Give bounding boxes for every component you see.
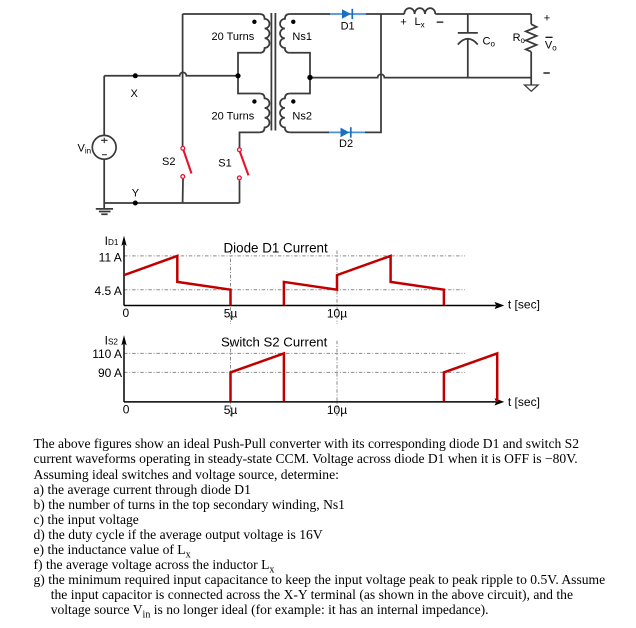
label S1	[218, 158, 231, 170]
wire Lx to output corner	[435, 13, 531, 15]
plot1 x-axis label t sec	[508, 298, 540, 312]
label output plus	[544, 13, 550, 25]
svg-text:10µ: 10µ	[327, 307, 347, 321]
wire S1 bottom contact to Y rail	[239, 180, 241, 203]
secondary center tap junction dot	[307, 75, 312, 80]
plot1 tick label 5u	[224, 307, 238, 321]
svg-text:Diode D1 Current: Diode D1 Current	[224, 241, 328, 256]
plot1 tick label 11A	[99, 250, 122, 264]
svg-text:IS2: IS2	[105, 333, 119, 347]
diode D2	[329, 127, 365, 137]
plot2 y-axis with arrow	[121, 335, 126, 402]
switch S1	[238, 148, 249, 180]
transformer primary winding P2 (20 Turns bottom)	[260, 94, 270, 133]
svg-text:X: X	[131, 88, 139, 100]
node Y dot	[133, 201, 138, 206]
svg-text:D1: D1	[341, 21, 355, 33]
ground symbol at Vin (3 bars)	[96, 203, 113, 214]
polarity dot P2	[252, 99, 256, 103]
plot2 tick label 10u	[327, 403, 347, 417]
switch S2	[181, 146, 192, 178]
wire Ns2 bottom to D2	[290, 131, 329, 133]
svg-text:Co: Co	[483, 35, 496, 48]
capacitor Co top plate	[458, 32, 478, 34]
wire D2 cathode up to D1 node	[365, 14, 381, 132]
svg-text:90 A: 90 A	[98, 366, 122, 380]
svg-text:4.5 A: 4.5 A	[95, 284, 122, 298]
svg-text:20 Turns: 20 Turns	[212, 110, 255, 122]
label node Y	[132, 187, 140, 199]
polarity dot Ns1	[291, 20, 295, 24]
plot2 x-axis with arrow	[124, 398, 504, 405]
transformer secondary winding Ns2	[280, 94, 290, 133]
plot1 title	[224, 241, 328, 256]
wire Ro bottom to output rail	[530, 52, 532, 78]
plot1 gridline 11A	[124, 255, 465, 257]
diode D1	[330, 9, 366, 19]
plot2 title	[221, 334, 328, 349]
wire Ns1 top to D1	[290, 13, 330, 15]
Vin plus minus marks	[101, 138, 107, 155]
svg-text:20 Turns: 20 Turns	[212, 31, 255, 43]
label + Lx -	[400, 16, 443, 29]
plot2 gridline 110A	[124, 352, 465, 354]
inductor Lx humps	[404, 8, 435, 14]
label output Vo with bar	[545, 37, 557, 52]
plot1 tick label 0	[122, 306, 129, 320]
label D1	[341, 21, 355, 33]
svg-text:5µ: 5µ	[224, 403, 238, 417]
label Ro	[513, 32, 526, 45]
svg-text:+: +	[400, 17, 406, 29]
plot2 gridline 90A	[124, 371, 465, 373]
wire D1 cathode to node at top	[366, 13, 381, 15]
svg-text:110 A: 110 A	[92, 347, 122, 361]
primary center tap junction dot	[235, 73, 240, 78]
svg-text:Vin: Vin	[78, 143, 92, 156]
plot2 tick label 0	[123, 403, 130, 417]
wire X rail with hop over S2 wire	[104, 72, 238, 75]
label output minus	[543, 72, 549, 74]
svg-text:Lx: Lx	[415, 16, 425, 29]
svg-text:+: +	[544, 13, 550, 25]
polarity dot P1	[252, 20, 256, 24]
label Ns1	[292, 31, 312, 43]
plot2 gridline 5u vertical	[230, 341, 232, 416]
wire Vin bottom to Y rail	[103, 159, 105, 203]
plot1 gridline 4.5A	[124, 289, 465, 291]
plot1 y-axis label ID1	[105, 234, 119, 248]
label node X	[131, 88, 139, 100]
wire top rail output to Lx	[381, 13, 405, 15]
plot2 tick label 90A	[98, 366, 122, 380]
plot1 waveform diode D1 current trace	[124, 256, 444, 305]
label D2	[339, 138, 353, 150]
voltage source Vin circle	[92, 135, 116, 159]
plot2 tick label 110A	[92, 347, 122, 361]
wire capacitor bottom	[467, 39, 469, 78]
wire S2 branch from top rail	[182, 14, 184, 146]
wire capacitor branch top	[467, 14, 469, 33]
svg-text:0: 0	[122, 306, 129, 320]
wire Vin top to X rail	[103, 76, 105, 136]
plot1 y-axis with arrow	[121, 236, 126, 306]
resistor Ro zigzag	[526, 24, 537, 52]
transformer core	[271, 13, 275, 131]
svg-text:ID1: ID1	[105, 234, 119, 248]
plot2 x-axis label t sec	[508, 395, 540, 409]
node X dot	[133, 73, 138, 78]
plot2 waveform switch S2 current trace	[231, 353, 498, 401]
plot1 gridline 5u vertical	[230, 251, 232, 325]
wire Ns1 bottom to secondary center tap	[290, 53, 310, 78]
svg-text:Ns1: Ns1	[292, 31, 312, 43]
svg-text:Switch S2 Current: Switch S2 Current	[221, 334, 328, 349]
plot1 tick label 10u	[327, 307, 347, 321]
label 20 Turns P1	[212, 31, 255, 43]
svg-text:10µ: 10µ	[327, 403, 347, 417]
svg-text:5µ: 5µ	[224, 307, 238, 321]
svg-text:0: 0	[123, 403, 130, 417]
wire Y bottom rail	[104, 202, 239, 204]
wire primary center tap to P2	[238, 76, 260, 94]
plot1 tick label 4.5A	[95, 284, 122, 298]
svg-text:S1: S1	[218, 158, 231, 170]
svg-text:Vo: Vo	[545, 40, 557, 53]
svg-text:11 A: 11 A	[99, 250, 122, 264]
plot2 gridline 10u vertical	[336, 341, 338, 416]
svg-text:Ro: Ro	[513, 32, 526, 45]
wire output bottom rail with hop	[310, 74, 531, 77]
ground symbol at output (hollow triangle)	[525, 85, 539, 91]
wire ground stub output	[530, 78, 532, 85]
svg-text:S2: S2	[162, 156, 175, 168]
label Co	[483, 35, 496, 48]
plot1 gridline 10u vertical	[336, 251, 338, 325]
svg-text:t [sec]: t [sec]	[508, 298, 540, 312]
label Vin	[78, 143, 92, 156]
wire S2 bottom contact to Y rail	[182, 179, 184, 204]
wire secondary center tap to Ns2 top	[290, 78, 310, 94]
svg-text:D2: D2	[339, 138, 353, 150]
polarity dot Ns2	[291, 99, 295, 103]
plot2 y-axis label IS2	[105, 333, 119, 347]
label Ns2	[292, 110, 312, 122]
wire output right side down to Ro	[530, 14, 532, 24]
label S2	[162, 156, 175, 168]
plot2 tick label 5u	[224, 403, 238, 417]
wire P2 bottom to switch S1	[240, 132, 260, 147]
transformer primary winding P1 (20 Turns top)	[260, 14, 270, 53]
svg-text:Ns2: Ns2	[292, 110, 312, 122]
transformer secondary winding Ns1	[280, 14, 290, 53]
capacitor Co curved plate	[458, 39, 478, 45]
plot1 x-axis with arrow	[124, 302, 504, 309]
wire P1 bottom to center tap	[238, 53, 260, 76]
svg-text:Y: Y	[132, 187, 140, 199]
wire top rail primary side	[183, 13, 260, 15]
label 20 Turns P2	[212, 110, 255, 122]
svg-text:t [sec]: t [sec]	[508, 395, 540, 409]
